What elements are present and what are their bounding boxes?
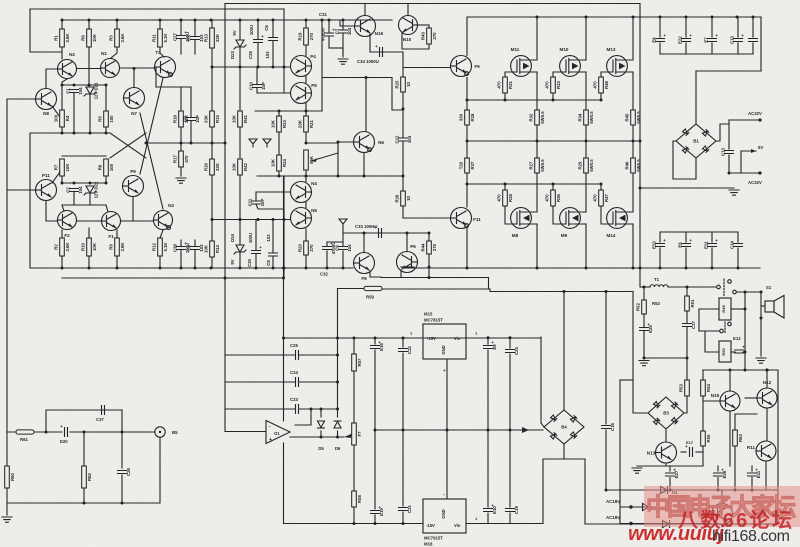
resistor R8 (80, 29, 96, 47)
wire R20 top (305, 229, 307, 241)
wire E21 bot (711, 248, 713, 268)
wire R12 bot (159, 256, 161, 268)
wire R20 bot (305, 255, 307, 268)
wire R28 bot (466, 125, 468, 141)
wire reg top rail (284, 337, 542, 339)
wire E17 line b (696, 451, 703, 453)
wire gnd stub top (342, 48, 344, 57)
capacitor C13r (721, 147, 734, 155)
wire AC feed left (620, 379, 633, 381)
resistor R1 (53, 29, 69, 47)
wire C1 bot (73, 93, 75, 134)
ground R17 (176, 178, 186, 183)
mosfet M10 (560, 47, 586, 76)
node R33 gate bus (552, 99, 555, 102)
wire D24 bot (239, 253, 241, 268)
resistor R41 (231, 111, 247, 127)
capacitor C25b (506, 346, 520, 354)
capacitor C6 (269, 38, 278, 41)
wire output line 2 (668, 286, 717, 288)
bridge rectifier B3 (648, 397, 684, 429)
mosfet M8 (511, 208, 537, 229)
wire B4 right drop (584, 459, 586, 524)
wire C19 bot (509, 513, 511, 524)
resistor R54 (701, 380, 711, 396)
resistor R36 470 lower (544, 190, 560, 206)
resistor R42 (231, 159, 247, 175)
wire cross diag b (110, 133, 146, 158)
wire M11 drain (536, 17, 538, 60)
transistor F1 (102, 212, 121, 240)
jack B5 ring (155, 427, 165, 437)
node gate bus lower left (466, 183, 469, 186)
zener D23 (234, 40, 246, 49)
capacitor C2 (66, 186, 84, 194)
diode D4 (661, 487, 679, 496)
wire protect left (632, 292, 634, 381)
wire bottom bus right (620, 523, 711, 525)
wire R10 bot (88, 256, 90, 268)
mosfet M9 (560, 208, 586, 229)
wire M14 drain lower (632, 224, 634, 268)
resistor R9 (108, 238, 124, 256)
capacitor E23 (652, 238, 667, 249)
wire N6 box top (322, 77, 392, 79)
wire N2-N1 bases (77, 68, 100, 70)
wire R52 top (643, 287, 645, 300)
wire N8 collector (46, 69, 58, 89)
transistor N1 (101, 51, 120, 78)
resistor R33 470 (544, 77, 560, 93)
transistor P5 (291, 83, 318, 104)
wire speaker gnd col (760, 292, 762, 356)
wire N16 base (340, 20, 355, 26)
wire bias rail low3 (62, 204, 106, 206)
resistor R51 (685, 296, 695, 311)
wire D6 col (337, 289, 339, 418)
wire gnd stub c33 (342, 227, 344, 242)
wire C4 top (194, 240, 196, 247)
ground C7 (338, 59, 348, 64)
wire B3 left lead (633, 380, 648, 413)
regulator M15 MC7815T (423, 324, 466, 359)
wire B1 left lead (673, 141, 696, 179)
wire R15-R16 (211, 127, 213, 159)
wire C2 bot (73, 192, 75, 206)
node gate bus left (466, 99, 469, 102)
wire input line to bases (6, 99, 8, 432)
wire E17 line (681, 451, 686, 453)
resistor R14 (203, 241, 219, 257)
mosfet M14 (607, 208, 633, 229)
wire N15 emitter (729, 411, 731, 466)
capacitor C27 (173, 30, 191, 42)
wire D21 bot (89, 95, 91, 133)
wire C8b bot (272, 256, 274, 268)
resistor R26 (394, 191, 410, 206)
wire E6 top (659, 17, 661, 37)
wire R54-R55 (702, 396, 704, 431)
transistor N14 (712, 504, 733, 525)
wire N3 emitter diagonal (140, 113, 163, 209)
wire R59 left (338, 288, 367, 290)
wire source res bot M10 (585, 125, 587, 141)
wire speaker drop (744, 292, 746, 370)
node C24 (336, 381, 339, 384)
op-amp D1 (266, 421, 290, 444)
wire R24 bot (278, 171, 280, 176)
resistor R18 (172, 111, 188, 127)
capacitor C32e (323, 241, 337, 254)
wire source res bot M11 (536, 125, 538, 141)
resistor R58 (352, 491, 362, 507)
capacitor C7 (335, 27, 353, 35)
wire F8 emitter (370, 271, 381, 277)
resistor R12 (151, 238, 167, 256)
wire M13 source (632, 72, 634, 110)
wire R2 top (61, 230, 63, 238)
wire N8 base stub (7, 98, 35, 100)
resistor R52 (635, 300, 646, 314)
wire R43 top (428, 25, 430, 28)
ground input (2, 517, 12, 522)
wire R26 top (402, 176, 404, 191)
wire E11 top (751, 466, 753, 471)
wire speaker feed (737, 291, 762, 293)
contact b1 (720, 329, 724, 333)
nodes feedback taps (224, 142, 227, 280)
wire R50 left lead (705, 331, 719, 352)
wire E20 link (46, 431, 62, 433)
wire M8 source lower (536, 173, 538, 212)
resistor R20 (297, 241, 313, 255)
resistor R47 470 lower (592, 190, 608, 206)
wire C14 top (737, 232, 739, 242)
wire E27 bot (669, 478, 671, 491)
node X junction (145, 142, 148, 145)
wire E10 bot (487, 513, 489, 524)
capacitor C23 (296, 405, 299, 414)
junction dots output bus (466, 140, 642, 143)
wire R49 left lead (699, 309, 719, 331)
wire bias rail mid (30, 132, 110, 134)
wire R9 top (116, 230, 118, 238)
wire C17 bot (686, 327, 688, 359)
contact b2 (728, 322, 732, 326)
wire drain rail top (468, 16, 760, 18)
capacitor E6 (652, 33, 667, 43)
node N6 col junction (365, 76, 368, 79)
wire R13 top (211, 20, 213, 28)
wire R11 top (159, 20, 161, 29)
ground E25 (639, 361, 649, 366)
wire C10-P5 base (257, 88, 290, 94)
wire C25 line (225, 354, 295, 356)
wire R19 top (305, 20, 307, 28)
transistor F2 (58, 211, 77, 239)
transistor N7 (124, 88, 145, 117)
wire AC mid rail (375, 429, 543, 431)
wire R37 bot (466, 173, 468, 184)
capacitor C4 (187, 244, 205, 252)
wire C9 top (190, 87, 192, 118)
resistor R43 (420, 28, 436, 44)
wire R1-N2 (61, 47, 63, 59)
wire D24 top (239, 220, 241, 246)
junction dots bottom rail (466, 267, 740, 270)
wire N12 collector (766, 370, 768, 388)
wire C23 line (225, 408, 295, 410)
wire C31 column (321, 20, 323, 111)
wire +rail top-left (30, 8, 284, 10)
wire M14 source lower (632, 173, 634, 212)
resistor R3 (108, 29, 124, 47)
wire D23 col (239, 19, 241, 40)
wire C26 bot (121, 475, 123, 503)
wire bottom bus (30, 267, 353, 269)
wire protect bottom (606, 489, 778, 491)
watermark overlay (628, 486, 800, 545)
wire R53 bot (684, 396, 687, 413)
wire riser x284 upper (283, 67, 285, 93)
junction dots protect top (729, 369, 769, 372)
wire C34 link (370, 51, 403, 53)
wire C31e bot (328, 36, 330, 48)
node R36 gate bus lower (552, 183, 555, 186)
wire R9 bot (116, 256, 118, 268)
node F8 col (363, 232, 366, 235)
capacitor C38 (173, 241, 191, 253)
wire F9 base wire (403, 67, 451, 69)
wire N4 top (305, 176, 307, 182)
capacitor C21 (399, 504, 413, 512)
zener D22 12V (84, 181, 99, 198)
transistor N4 (291, 181, 318, 203)
transistor N13 (647, 442, 677, 463)
wire E9 top (487, 338, 489, 344)
wire R63 bot (734, 446, 736, 490)
resistor R21 (297, 116, 313, 132)
capacitor C28 (254, 34, 265, 43)
resistor R44 (420, 241, 436, 254)
wire E26 bot (717, 478, 719, 491)
wire C8c bot (342, 251, 344, 268)
wire B1 bottom lead (695, 158, 697, 179)
node R47 gate bus lower (600, 183, 603, 186)
wire D5 top lead (320, 409, 322, 417)
wire N15 collector (729, 370, 731, 391)
junction dots mid rail upper (278, 110, 308, 113)
terminal AC18V b (629, 522, 632, 525)
transistor N11 (747, 441, 776, 461)
wire C13 bot (737, 43, 739, 54)
resistor R31 470 (496, 77, 512, 93)
wire servo bottom (284, 523, 404, 525)
wire E11 bot (751, 478, 753, 491)
wire C12b top (752, 17, 754, 37)
wire F11 collector (466, 229, 468, 269)
junction dots input (83, 431, 124, 434)
mosfet M13 (607, 47, 633, 76)
wire source res top M9 (585, 141, 587, 158)
wire C10 top (256, 67, 258, 85)
resistor R23 (270, 116, 286, 132)
wire C13 col (728, 120, 730, 149)
wire R28 top (466, 100, 468, 110)
wire AC column (619, 380, 621, 524)
wire R50 right lead (731, 351, 735, 353)
wire N12 base (745, 397, 757, 399)
wire R19-P4 (305, 45, 307, 56)
wire M9 source lower (585, 173, 587, 212)
node C13 bottom (728, 172, 731, 175)
node E12 (744, 351, 747, 354)
wire M13 drain (632, 17, 634, 60)
resistor source M11 (528, 110, 544, 125)
wire M10 source (585, 72, 587, 110)
wire R7 bot (61, 176, 63, 183)
transistor N6 (354, 132, 385, 153)
mosfet M11 (511, 47, 537, 76)
wire N16 emitter (369, 34, 371, 52)
wire bias rail low1 (62, 155, 106, 157)
wire C22 top (402, 338, 404, 347)
resistor source M10 (577, 110, 593, 125)
junction dots drain rail (536, 16, 755, 19)
wire R10 top (88, 228, 90, 238)
wire bottom supply bus (585, 523, 778, 525)
wire C30 top (255, 220, 257, 251)
wire R5 top (105, 85, 107, 111)
wire C7 top (342, 20, 344, 30)
wire D5 bot lead (320, 431, 322, 437)
wire mid link (490, 289, 633, 292)
ground speaker (756, 358, 766, 363)
transistor N8 (36, 89, 57, 117)
wire N4-N5 (305, 203, 307, 208)
capacitor C12 (395, 135, 413, 143)
wire C27 top (180, 20, 182, 36)
wire P11 base stub (7, 189, 35, 191)
wire AC18V a (620, 506, 656, 508)
capacitor E9 (484, 340, 498, 350)
wire C31e top (328, 20, 330, 33)
wire E7 top (711, 17, 713, 37)
wire F10 emitter (400, 270, 402, 277)
resistor R62 (82, 466, 92, 488)
wire 5V tap (741, 150, 756, 152)
junction dots servo bottom (353, 522, 405, 525)
wire R3-N1 (111, 47, 117, 58)
wire R36 top lead (552, 184, 554, 190)
wire R57 top (353, 338, 355, 354)
capacitor C9 (183, 115, 201, 123)
resistor R4 (53, 110, 69, 127)
diode D2 (643, 504, 650, 511)
ground tri b (263, 139, 271, 147)
wire R60 bot (6, 488, 8, 515)
wire upper base bus (212, 66, 290, 68)
ground mid right (729, 190, 739, 195)
wire R58 bot (353, 507, 355, 524)
wire R44 top (428, 233, 430, 241)
contact a1 (717, 285, 721, 289)
terminal AC18V a (629, 505, 632, 508)
wire N14 collector (721, 490, 723, 504)
wire B4 feed left (540, 337, 542, 423)
wire E12 right (743, 351, 745, 353)
wire AC32V top (729, 119, 760, 121)
wire C9 bot (190, 121, 192, 144)
wire R48 gate lead (601, 72, 613, 77)
wire R8 top (88, 20, 90, 29)
arrow AC mid (522, 427, 529, 433)
wire C12b bot (752, 43, 754, 54)
wire F2 emitter (62, 205, 64, 211)
wire N6 emitter (363, 153, 365, 177)
wire R22 bot (305, 170, 307, 176)
resistor R28 (458, 110, 474, 125)
wire R21 top (305, 111, 307, 116)
resistor R60 (5, 466, 15, 488)
wire left mid rail (29, 133, 31, 268)
wire 5V drop (740, 151, 742, 173)
capacitor E10 (484, 503, 498, 514)
wire R25 col top (402, 52, 404, 68)
wire R42 bot (239, 175, 241, 220)
wire F2-F1 bases (77, 220, 101, 222)
capacitor C1 (66, 87, 84, 95)
wire R17 bot (180, 167, 182, 176)
wire F7-R58 (353, 445, 355, 491)
wire gnd rail 358 (644, 357, 687, 359)
wire source res top M14 (632, 141, 634, 158)
node out-gnd (639, 187, 642, 190)
wire E18 col top (374, 338, 376, 344)
junction dots servo left (282, 267, 285, 340)
wire bias rail upper (62, 84, 106, 86)
wire emitter bus low (381, 277, 489, 279)
wire R14 bot (211, 257, 213, 268)
wire C5 bot (194, 40, 196, 55)
junction dots reg top (336, 336, 512, 339)
resistor R59 (364, 286, 382, 290)
wire feedback vertical (224, 4, 226, 432)
wire B4 left vertex lead (541, 423, 544, 427)
wire T3 base rail (156, 86, 191, 88)
transistor F11 (451, 208, 482, 229)
wire M8 drain lower (536, 224, 538, 268)
capacitor E18 (371, 340, 385, 351)
wire bridge top lead (695, 71, 697, 124)
wire F1-N3 (121, 220, 153, 222)
wire R57-F7 (353, 371, 355, 423)
wire E9 down (487, 350, 489, 507)
wire R54 top (702, 370, 704, 380)
capacitor E26 (714, 468, 728, 479)
wire R41 top (239, 67, 241, 111)
capacitor E8 (678, 238, 693, 248)
wire C26 col (121, 410, 123, 468)
capacitor C34 (375, 44, 383, 57)
transistor F10 (397, 244, 418, 273)
node C16 bottom (605, 489, 608, 492)
wire R63 link (735, 413, 757, 415)
junction dots supply bus (61, 19, 345, 22)
wire noninv input (225, 431, 266, 433)
wire emitter bus drop (488, 278, 490, 290)
transistor N5 (291, 208, 318, 229)
